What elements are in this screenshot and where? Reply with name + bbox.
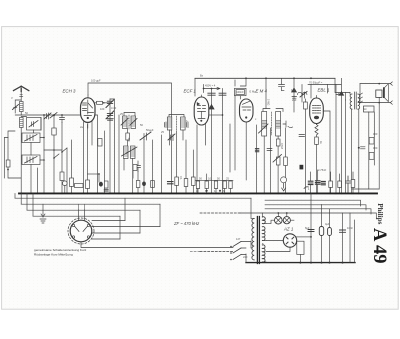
link y174 bbox=[88, 173, 100, 175]
band coil box L3 bbox=[22, 133, 40, 143]
speaker bbox=[358, 82, 392, 104]
IF transformer 3 detector bbox=[259, 109, 293, 194]
svg-text:5 MΩ: 5 MΩ bbox=[267, 99, 271, 105]
svg-text:100: 100 bbox=[373, 132, 378, 136]
cap column bbox=[71, 140, 73, 178]
right staircase from bus bbox=[200, 193, 376, 218]
wire x285 bbox=[285, 128, 287, 193]
tone cap right bbox=[361, 147, 366, 149]
svg-text:0,1: 0,1 bbox=[179, 176, 183, 180]
staircase drops bbox=[120, 198, 160, 239]
link line y150 bbox=[44, 149, 62, 151]
svg-text:gemeinsame Schalterumlenkung K: gemeinsame Schalterumlenkung Kurz bbox=[34, 248, 87, 252]
wire top text row bbox=[308, 84, 341, 86]
svg-text:EBL 1: EBL 1 bbox=[318, 88, 330, 93]
resistor R osc bbox=[60, 172, 64, 181]
top rail HT bbox=[195, 77, 335, 79]
box x152 bottom bbox=[151, 181, 155, 188]
row of resistors above bus (center) bbox=[196, 174, 234, 193]
wire x159 bbox=[160, 135, 162, 193]
right section verticals bbox=[335, 85, 337, 194]
EBL1 grid components left bbox=[292, 85, 307, 194]
svg-text:5Ω: 5Ω bbox=[363, 107, 366, 111]
ground symbol bbox=[40, 204, 46, 223]
svg-text:V: V bbox=[11, 96, 13, 100]
svg-text:2-75nF: 2-75nF bbox=[318, 168, 327, 172]
cap pair mid bbox=[136, 161, 141, 172]
EBL1 cathode chain bbox=[315, 124, 319, 194]
wire 5M line bbox=[265, 78, 267, 108]
antenna trimmer bbox=[13, 100, 22, 113]
mixer trimmer bbox=[140, 132, 151, 140]
svg-text:ECF 1: ECF 1 bbox=[184, 89, 197, 94]
resistor box x106 bbox=[104, 181, 108, 188]
svg-text:50µµF: 50µµF bbox=[146, 128, 154, 132]
svg-text:4µF: 4µF bbox=[325, 222, 330, 226]
svg-text:450V ≈ 4: 450V ≈ 4 bbox=[205, 84, 216, 88]
wire antenna stem to bus bbox=[20, 128, 22, 194]
wire x97 bbox=[93, 115, 98, 193]
screen arrow pointer bbox=[204, 85, 221, 93]
bottom heater rail bbox=[246, 262, 355, 264]
svg-text:A 49: A 49 bbox=[369, 228, 389, 263]
svg-text:127: 127 bbox=[236, 237, 241, 241]
svg-text:70·50µµF ≈: 70·50µµF ≈ bbox=[309, 81, 323, 85]
osc line drop component bbox=[168, 134, 175, 140]
wire left edge drop bbox=[8, 131, 21, 178]
resistors far right bbox=[369, 138, 374, 145]
grid components right of ECH3 bbox=[95, 99, 119, 193]
wire osc top line bbox=[88, 83, 172, 193]
A49 model text bbox=[369, 228, 389, 263]
Philips logo text bbox=[376, 203, 384, 224]
wire antenna input node bbox=[15, 114, 80, 116]
resistor 0.5M below IF3 bbox=[276, 139, 280, 146]
horizontal link box bbox=[75, 184, 84, 188]
electrolytic blob bbox=[99, 182, 103, 187]
AVC chain x211 bbox=[211, 89, 213, 194]
svg-text:3-30: 3-30 bbox=[111, 106, 117, 110]
wire EM4 anode bbox=[240, 78, 246, 86]
caption text lines bbox=[34, 248, 87, 257]
main ground bus bbox=[19, 192, 377, 194]
electrolytic circle bbox=[281, 177, 287, 183]
antenna coil L2 bbox=[20, 118, 24, 128]
wire ECF1 anode right bbox=[209, 114, 223, 116]
wire ECF1 leads bbox=[197, 124, 206, 193]
box x97 bbox=[98, 139, 102, 147]
wire switch column bbox=[38, 115, 45, 193]
bus junction dots bbox=[20, 193, 359, 195]
svg-text:220: 220 bbox=[243, 255, 248, 259]
svg-text:8µF: 8µF bbox=[305, 226, 310, 230]
screen box 10nF double box bbox=[235, 88, 247, 99]
IF transformer 1 bbox=[121, 113, 137, 130]
wire ECH3 bottom leads bbox=[84, 122, 93, 194]
svg-text:100: 100 bbox=[100, 107, 105, 111]
svg-text:2nF: 2nF bbox=[292, 98, 297, 102]
antenna bbox=[14, 86, 29, 115]
blob x144 bbox=[142, 182, 146, 187]
switch contact S1 bbox=[50, 113, 57, 119]
below-bus left verticals bbox=[15, 193, 33, 216]
wire right of EBL1 bbox=[323, 111, 330, 193]
rectifier AZ1 bbox=[266, 234, 312, 252]
wire x104 bbox=[104, 131, 106, 193]
wire x222 with cap bbox=[222, 89, 224, 194]
links to band switch drum bbox=[92, 221, 160, 240]
padder cap bbox=[60, 115, 65, 123]
svg-text:E M 4: E M 4 bbox=[256, 89, 268, 94]
svg-text:ZF ~ 470 kHz: ZF ~ 470 kHz bbox=[173, 221, 200, 226]
staircase horizontals left bbox=[15, 197, 251, 199]
dial lamps bbox=[266, 212, 294, 224]
output transformer bbox=[350, 92, 363, 193]
svg-text:E Mg: E Mg bbox=[250, 90, 257, 94]
svg-text:0,1: 0,1 bbox=[208, 177, 212, 181]
tuning cap box C1 bbox=[27, 118, 42, 131]
box x138 bottom bbox=[136, 181, 140, 188]
filter caps right of AZ1 bbox=[308, 200, 355, 263]
antenna coil L1 bbox=[20, 102, 24, 112]
a-b arrow bbox=[336, 94, 341, 96]
wire x152 bbox=[152, 140, 154, 193]
decoupling cap on rail bbox=[279, 78, 285, 90]
mains selector switch bbox=[230, 242, 251, 261]
tiny value labels scattered bbox=[11, 74, 378, 260]
svg-text:100nF: 100nF bbox=[236, 90, 244, 94]
svg-text:0,5M: 0,5M bbox=[280, 143, 284, 149]
IF transformer 2 bbox=[165, 115, 189, 146]
oscillator coil bbox=[122, 146, 138, 193]
svg-text:ECH 3: ECH 3 bbox=[63, 89, 76, 94]
resistor below IF1 bbox=[127, 129, 129, 134]
wire speaker return bbox=[378, 97, 380, 189]
wire L3-L4 links bbox=[31, 138, 44, 194]
diode arrow mid right bbox=[339, 92, 343, 96]
wire x230 bbox=[229, 124, 231, 172]
svg-text:4nF: 4nF bbox=[127, 138, 131, 143]
switch contacts mid-left bbox=[43, 128, 67, 193]
trimmer T2 bbox=[44, 113, 51, 119]
tube ECF1 bbox=[194, 95, 209, 125]
ZF label bbox=[173, 221, 200, 226]
wire x235 bbox=[234, 95, 236, 170]
wire x270 bbox=[270, 128, 272, 193]
detector caps row bbox=[255, 149, 258, 152]
svg-text:1nF: 1nF bbox=[291, 88, 296, 92]
svg-text:Philips: Philips bbox=[376, 203, 384, 224]
wire node to C1 bbox=[21, 117, 41, 134]
small box left power bbox=[297, 241, 304, 254]
power transformer bbox=[251, 198, 266, 263]
tube EBL1 bbox=[310, 96, 324, 124]
resistor col x87 bbox=[87, 125, 89, 181]
resistors right of IF2 bbox=[176, 131, 178, 177]
volume pot arrow bbox=[273, 155, 282, 163]
svg-text:100 µµF: 100 µµF bbox=[91, 79, 101, 83]
tube EM4 bbox=[240, 99, 254, 180]
wire x256 bbox=[256, 125, 258, 193]
svg-text:10nF: 10nF bbox=[347, 226, 353, 230]
svg-text:AZ 1: AZ 1 bbox=[283, 227, 294, 232]
svg-text:100: 100 bbox=[373, 146, 378, 150]
mains cable dashed bbox=[200, 251, 233, 253]
band coil box L4 bbox=[22, 155, 40, 165]
electrolytic circle left row bbox=[63, 181, 68, 186]
components above bus right section bbox=[300, 165, 355, 193]
tube labels bbox=[63, 88, 330, 232]
band switch drum bbox=[68, 204, 233, 247]
electrolytic marks bbox=[168, 182, 174, 184]
rail corner to output transformer bbox=[335, 78, 350, 92]
svg-text:Rückanlage Kurz Mittel1ung: Rückanlage Kurz Mittel1ung bbox=[34, 253, 73, 257]
tube ECH3 bbox=[81, 95, 96, 122]
